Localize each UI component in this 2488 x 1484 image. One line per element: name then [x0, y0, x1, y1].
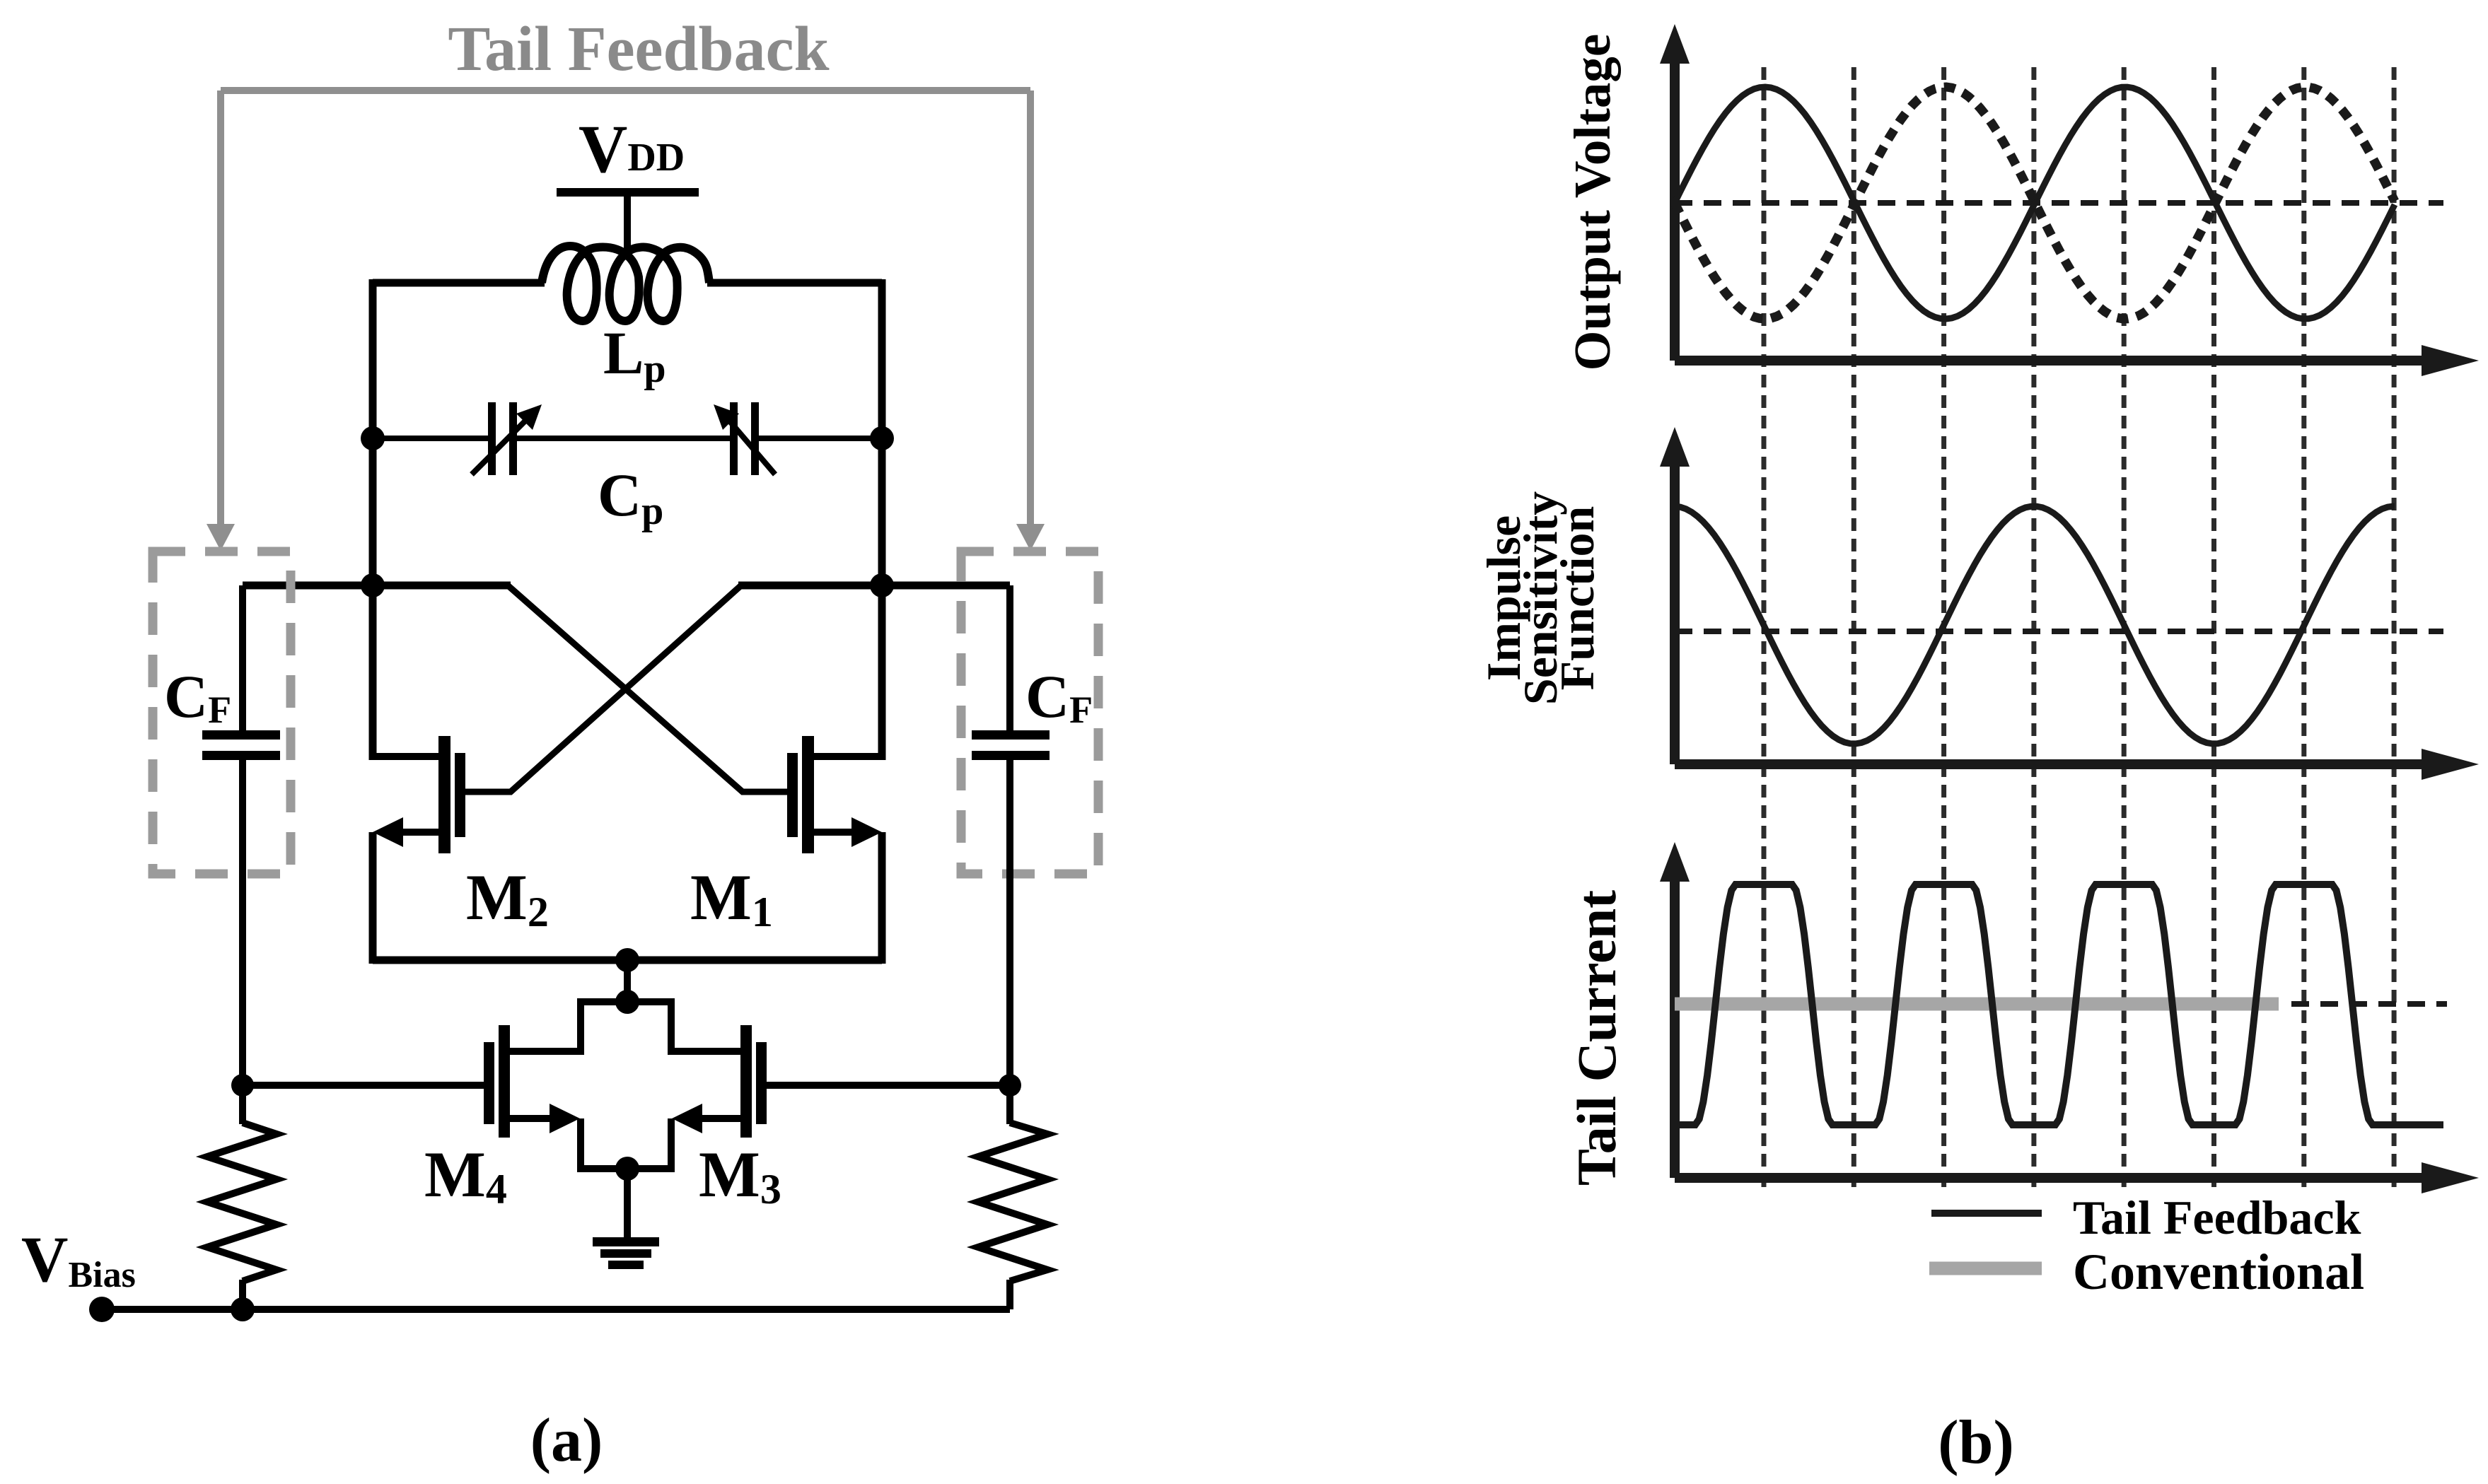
node: bottom source junction	[615, 1157, 639, 1181]
svg-text:Tail Feedback: Tail Feedback	[448, 14, 829, 84]
wire: M4 drain leg	[510, 998, 581, 1051]
transistor M1: source arrow (points right)	[851, 817, 882, 847]
svg-text:(b): (b)	[1938, 1408, 2014, 1477]
node: tail junction on rail	[615, 948, 639, 972]
ground stem	[624, 1169, 631, 1241]
svg-text:Output Voltage: Output Voltage	[1564, 34, 1621, 371]
varactor Cp left: plates	[488, 402, 496, 475]
tail feedback gray wire: right vertical	[1027, 90, 1034, 528]
varactor Cp right: arrow	[726, 416, 775, 474]
svg-text:Conventional: Conventional	[2073, 1244, 2364, 1300]
arrowhead into left CF box	[207, 524, 235, 551]
wire: cross-couple diagonal to M1 gate	[508, 585, 787, 792]
resistor right: top lead	[1006, 1085, 1013, 1124]
wire: tank top left	[373, 279, 545, 287]
node: left output junction	[361, 573, 385, 597]
node: varactor row left junction	[361, 426, 385, 450]
tail feedback gray wire: left vertical	[217, 90, 224, 528]
transistor M4: gate wire	[242, 1082, 484, 1089]
varactor Cp right: plates	[730, 402, 738, 475]
transistor M3: gate bar	[756, 1042, 767, 1124]
capacitor CF right: bottom lead down to gate node	[1006, 760, 1013, 1085]
plot 2 ISF curve	[1675, 506, 2395, 744]
transistor M3: gate wire	[767, 1082, 1013, 1089]
transistor M1: channel bar	[802, 736, 814, 853]
transistor M2: drain bend	[373, 753, 442, 760]
wire: cross-couple diagonal to M2 gate	[465, 585, 741, 792]
wire: common source rail	[373, 957, 882, 964]
plot 1 y-axis (Output Voltage)	[1670, 53, 1680, 361]
legend: tail feedback line sample	[1931, 1210, 2042, 1217]
wire: right tank rail	[878, 279, 886, 760]
transistor M4: source wire + arrow (points right)	[510, 1115, 555, 1122]
resistor left: top lead	[239, 1085, 246, 1124]
transistor M4: gate bar	[484, 1042, 494, 1124]
resistor right zigzag	[978, 1123, 1047, 1281]
plot 3 y-axis (Tail Current)	[1670, 871, 1680, 1178]
VDD supply bar	[557, 188, 699, 197]
svg-text:(a): (a)	[530, 1406, 603, 1475]
VBias terminal dot	[89, 1297, 115, 1322]
varactor Cp left: arrow	[472, 416, 530, 474]
wire: output node row (right horizontal)	[738, 582, 1010, 590]
plot 3 gray conventional tail-current line	[1675, 998, 2279, 1011]
plot 3 dashed continuation of conventional level	[2291, 1001, 2447, 1007]
node: tail top of M3/M4	[615, 990, 639, 1014]
transistor M4: channel bar	[499, 1025, 510, 1138]
left CF dashed feedback box	[153, 551, 291, 874]
wire: tank top right	[707, 279, 882, 287]
wire: M3 source leg	[627, 1118, 671, 1169]
vertical dashed gridlines	[1764, 67, 2394, 1192]
transistor M2: source wire	[396, 829, 442, 836]
resistor left: bottom lead	[239, 1280, 246, 1309]
ground bar 1	[593, 1237, 659, 1246]
plot 2 y-axis (ISF)	[1670, 456, 1680, 764]
plot 3 tail-feedback pulsed current	[1675, 884, 2443, 1125]
node: right gate junction	[999, 1074, 1021, 1097]
ground bar 2	[600, 1249, 651, 1258]
capacitor CF left: top lead	[239, 585, 246, 730]
wire: varactor row right	[759, 436, 882, 441]
transistor M2: source arrow (points left)	[373, 817, 403, 847]
plot 1 x-axis	[1675, 356, 2427, 366]
right CF dashed feedback box	[961, 551, 1098, 874]
plot 2 x-axis	[1675, 759, 2427, 769]
tail feedback gray path: top horizontal wire	[221, 87, 1030, 94]
node: varactor row right junction	[870, 426, 894, 450]
svg-text:Tail Current: Tail Current	[1566, 890, 1627, 1186]
wire: M2 source down	[369, 832, 377, 964]
wire: M4 source leg	[581, 1118, 627, 1169]
VBias wire	[102, 1306, 1010, 1313]
capacitor CF left: bottom lead down to gate node	[239, 760, 246, 1085]
wire: VDD stem	[624, 197, 631, 255]
resistor right: bottom lead	[1006, 1280, 1013, 1309]
capacitor CF left: top plate	[202, 730, 280, 740]
wire: output node row (left horizontal)	[243, 582, 511, 590]
wire: varactor row left	[373, 436, 488, 441]
plot 3 x-axis	[1675, 1173, 2427, 1183]
node: right output junction	[870, 573, 894, 597]
wire: left tank rail	[369, 279, 377, 760]
capacitor CF right: top plate	[972, 730, 1050, 740]
transistor M3: source wire + arrow (points left)	[697, 1115, 740, 1122]
svg-text:ImpulseSensitivityFunction: ImpulseSensitivityFunction	[1477, 491, 1604, 705]
wire: M1 source down	[878, 832, 886, 964]
transistor M1: source wire	[810, 829, 859, 836]
svg-text:Tail Feedback: Tail Feedback	[2073, 1191, 2361, 1244]
plot 1 dashed sine (complementary output)	[1675, 87, 2395, 319]
transistor M1: drain bend	[810, 753, 882, 760]
ground bar 3	[608, 1261, 644, 1269]
capacitor CF right: top lead	[1006, 585, 1013, 730]
transistor M2: channel bar	[438, 736, 450, 853]
plot 1 solid sine (Tail Feedback output)	[1675, 87, 2395, 319]
capacitor CF right: bottom plate	[972, 751, 1050, 760]
transistor M1: gate bar	[787, 753, 798, 837]
transistor M3: channel bar	[740, 1025, 752, 1138]
inductor Lp coil	[542, 246, 709, 321]
wire: varactor row middle	[517, 436, 730, 441]
node: left gate junction	[231, 1074, 254, 1097]
arrowhead into right CF box	[1016, 524, 1045, 551]
capacitor CF left: bottom plate	[202, 751, 280, 760]
plot 2 dashed midline	[1675, 629, 2443, 634]
transistor M2: gate bar	[455, 753, 465, 837]
wire: tail stem	[624, 960, 631, 1002]
plot 1 dashed midline	[1675, 200, 2443, 206]
node: bias/resistor junction	[231, 1297, 255, 1321]
wire: M3/M4 drain top bar	[577, 998, 675, 1005]
resistor left zigzag	[207, 1123, 277, 1281]
wire: M3 drain leg	[671, 998, 740, 1051]
legend: conventional line sample	[1929, 1262, 2042, 1275]
